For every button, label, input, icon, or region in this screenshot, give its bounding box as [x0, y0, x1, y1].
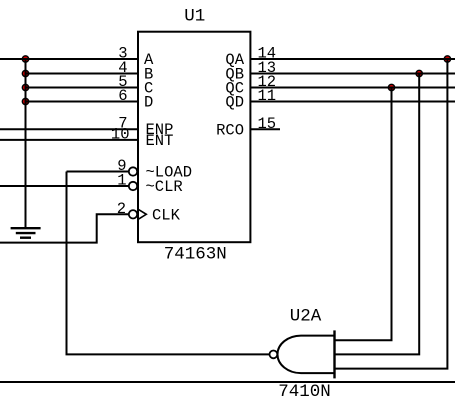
- wire ABCD bus vertical to ground: [25, 59, 27, 228]
- node QB junction dot: [416, 70, 422, 76]
- wire pin10 ENT from left edge: [0, 139, 138, 141]
- wire pin2 CLK feed from left edge: [0, 214, 129, 242]
- pin9 inversion bubble: [129, 167, 137, 175]
- wire QC pin12 output: [250, 87, 455, 89]
- gate U2A input bar: [333, 330, 335, 378]
- node QC junction dot: [388, 84, 394, 90]
- svg-text:10: 10: [111, 125, 130, 143]
- node QA junction dot: [444, 56, 450, 62]
- node C-net junction dot 3: [22, 84, 28, 90]
- svg-text:15: 15: [258, 115, 277, 133]
- wire bottom bus full width: [0, 381, 455, 383]
- wire ~LOAD feedback vertical: [67, 172, 270, 355]
- svg-text:U1: U1: [184, 7, 205, 27]
- wire RCO pin15 stub: [250, 128, 280, 130]
- wire QA to NAND input 3: [335, 59, 447, 369]
- svg-text:CLK: CLK: [152, 206, 181, 224]
- ground: [11, 228, 41, 238]
- wire pin9 ~LOAD stub: [67, 171, 129, 173]
- node B-net junction dot 2: [22, 70, 28, 76]
- wire QA pin14 output: [250, 58, 455, 60]
- svg-text:11: 11: [258, 87, 277, 105]
- svg-text:1: 1: [117, 172, 126, 190]
- wire QD pin11 output: [250, 101, 455, 103]
- svg-text:QD: QD: [225, 94, 244, 112]
- wire QC to NAND input 1: [335, 88, 392, 341]
- svg-text:ENT: ENT: [146, 132, 174, 150]
- svg-text:7410N: 7410N: [278, 382, 331, 400]
- wire pin3 A input from left edge: [0, 58, 138, 60]
- svg-text:D: D: [144, 94, 153, 112]
- wire pin1 ~CLR from left edge: [0, 185, 129, 187]
- svg-text:U2A: U2A: [290, 306, 322, 326]
- gate U2A output bubble: [270, 351, 278, 359]
- wire pin7 ENP from left edge: [0, 128, 138, 130]
- wire pin4 B input: [26, 73, 139, 75]
- node D-net junction dot 4: [22, 98, 28, 104]
- svg-text:2: 2: [117, 200, 126, 218]
- pin2 clock edge triangle: [138, 209, 146, 219]
- pin2 clock bubble: [129, 210, 137, 218]
- node A-net junction dot 1: [22, 56, 28, 62]
- wire QB pin13 output: [250, 73, 455, 75]
- wire pin6 D input: [26, 101, 139, 103]
- svg-text:~CLR: ~CLR: [146, 178, 183, 196]
- gate U2A 7410N NAND body (mirrored, output left): [277, 336, 334, 374]
- op U1 74163N body: [138, 32, 250, 243]
- wire pin5 C input: [26, 87, 139, 89]
- pin1 inversion bubble: [129, 182, 137, 190]
- svg-text:74163N: 74163N: [164, 244, 227, 264]
- wire QB to NAND input 2: [335, 74, 419, 355]
- svg-text:RCO: RCO: [216, 121, 244, 139]
- svg-text:6: 6: [118, 87, 127, 105]
